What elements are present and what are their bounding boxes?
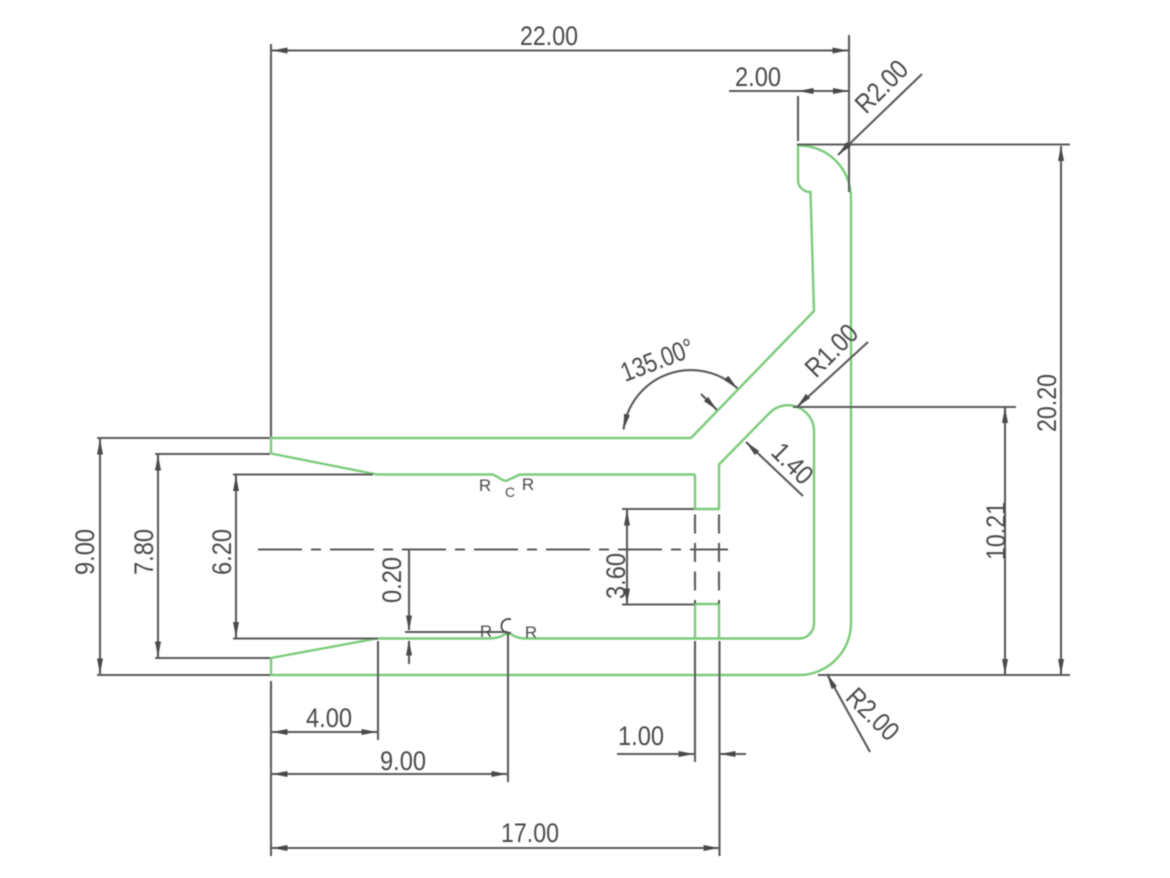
dimension 20.20 extension lines: [797, 143, 1070, 145]
profile outline: web left face (solid segments): [694, 475, 696, 639]
svg-text:17.00: 17.00: [501, 818, 559, 848]
svg-text:10.21: 10.21: [981, 502, 1011, 560]
svg-text:R: R: [525, 623, 537, 642]
svg-text:R: R: [522, 475, 534, 494]
svg-text:C: C: [505, 484, 515, 500]
svg-text:3.60: 3.60: [601, 553, 631, 599]
svg-text:R: R: [480, 622, 492, 641]
dimension 17.00: [272, 847, 719, 849]
dimension 9.00 bottom: [272, 773, 507, 775]
dimension 1.00: [617, 753, 694, 755]
dimension 9.00 left: [97, 437, 270, 439]
dimension 0.20: [408, 550, 410, 630]
bottom rib arc symbol: [501, 619, 511, 633]
svg-text:20.20: 20.20: [1032, 374, 1062, 432]
profile outline: outer boundary (hook top, R2 fillet, right wall, bottom R2 fillet, bottom edge, tip, taper, jaw bottom face, cavity fillet, inner wall, R1 nub, strut lower edge, web right face): [271, 146, 851, 676]
dimension 2.00: [797, 96, 799, 141]
svg-text:R1.00: R1.00: [799, 318, 864, 383]
dimension texts: [70, 21, 1062, 848]
svg-text:2.00: 2.00: [735, 62, 781, 92]
centerline: [258, 548, 728, 550]
svg-text:22.00: 22.00: [520, 21, 578, 51]
leader 1.40: [746, 442, 803, 496]
svg-text:R2.00: R2.00: [849, 54, 914, 119]
svg-text:7.80: 7.80: [129, 529, 159, 575]
svg-text:1.40: 1.40: [766, 437, 820, 491]
angle dimension 135.00 arc: [624, 370, 738, 429]
dimension 4.00: [272, 731, 377, 733]
dimension 7.80: [155, 453, 270, 455]
svg-text:1.00: 1.00: [618, 721, 664, 751]
svg-text:0.20: 0.20: [377, 557, 407, 603]
svg-text:9.00: 9.00: [380, 746, 426, 776]
dimension 22.00: [270, 44, 272, 437]
rib labels top: R C R: [479, 475, 537, 642]
dimension 3.60: [622, 508, 694, 510]
profile outline: jaw top face with rib notch: [377, 475, 695, 481]
profile outline: upper boundary (top flange top face, diagonal strut upper edge, hook inner wall): [271, 145, 814, 475]
svg-text:R: R: [479, 476, 491, 495]
leader R2.00 bottom: [827, 674, 870, 752]
svg-text:6.20: 6.20: [207, 529, 237, 575]
leader R1.00: [797, 342, 868, 407]
profile outline: hole top and bottom edges across web: [694, 509, 720, 604]
dimension 10.21: [793, 406, 1016, 408]
svg-text:9.00: 9.00: [70, 529, 100, 575]
arrowheads: [97, 48, 1064, 852]
leader R2.00 top: [838, 74, 922, 155]
hidden hole edges (dashed): [695, 509, 719, 604]
dimension 6.20: [233, 473, 373, 475]
angle leader arrow line: [701, 394, 717, 410]
svg-text:4.00: 4.00: [306, 703, 352, 733]
